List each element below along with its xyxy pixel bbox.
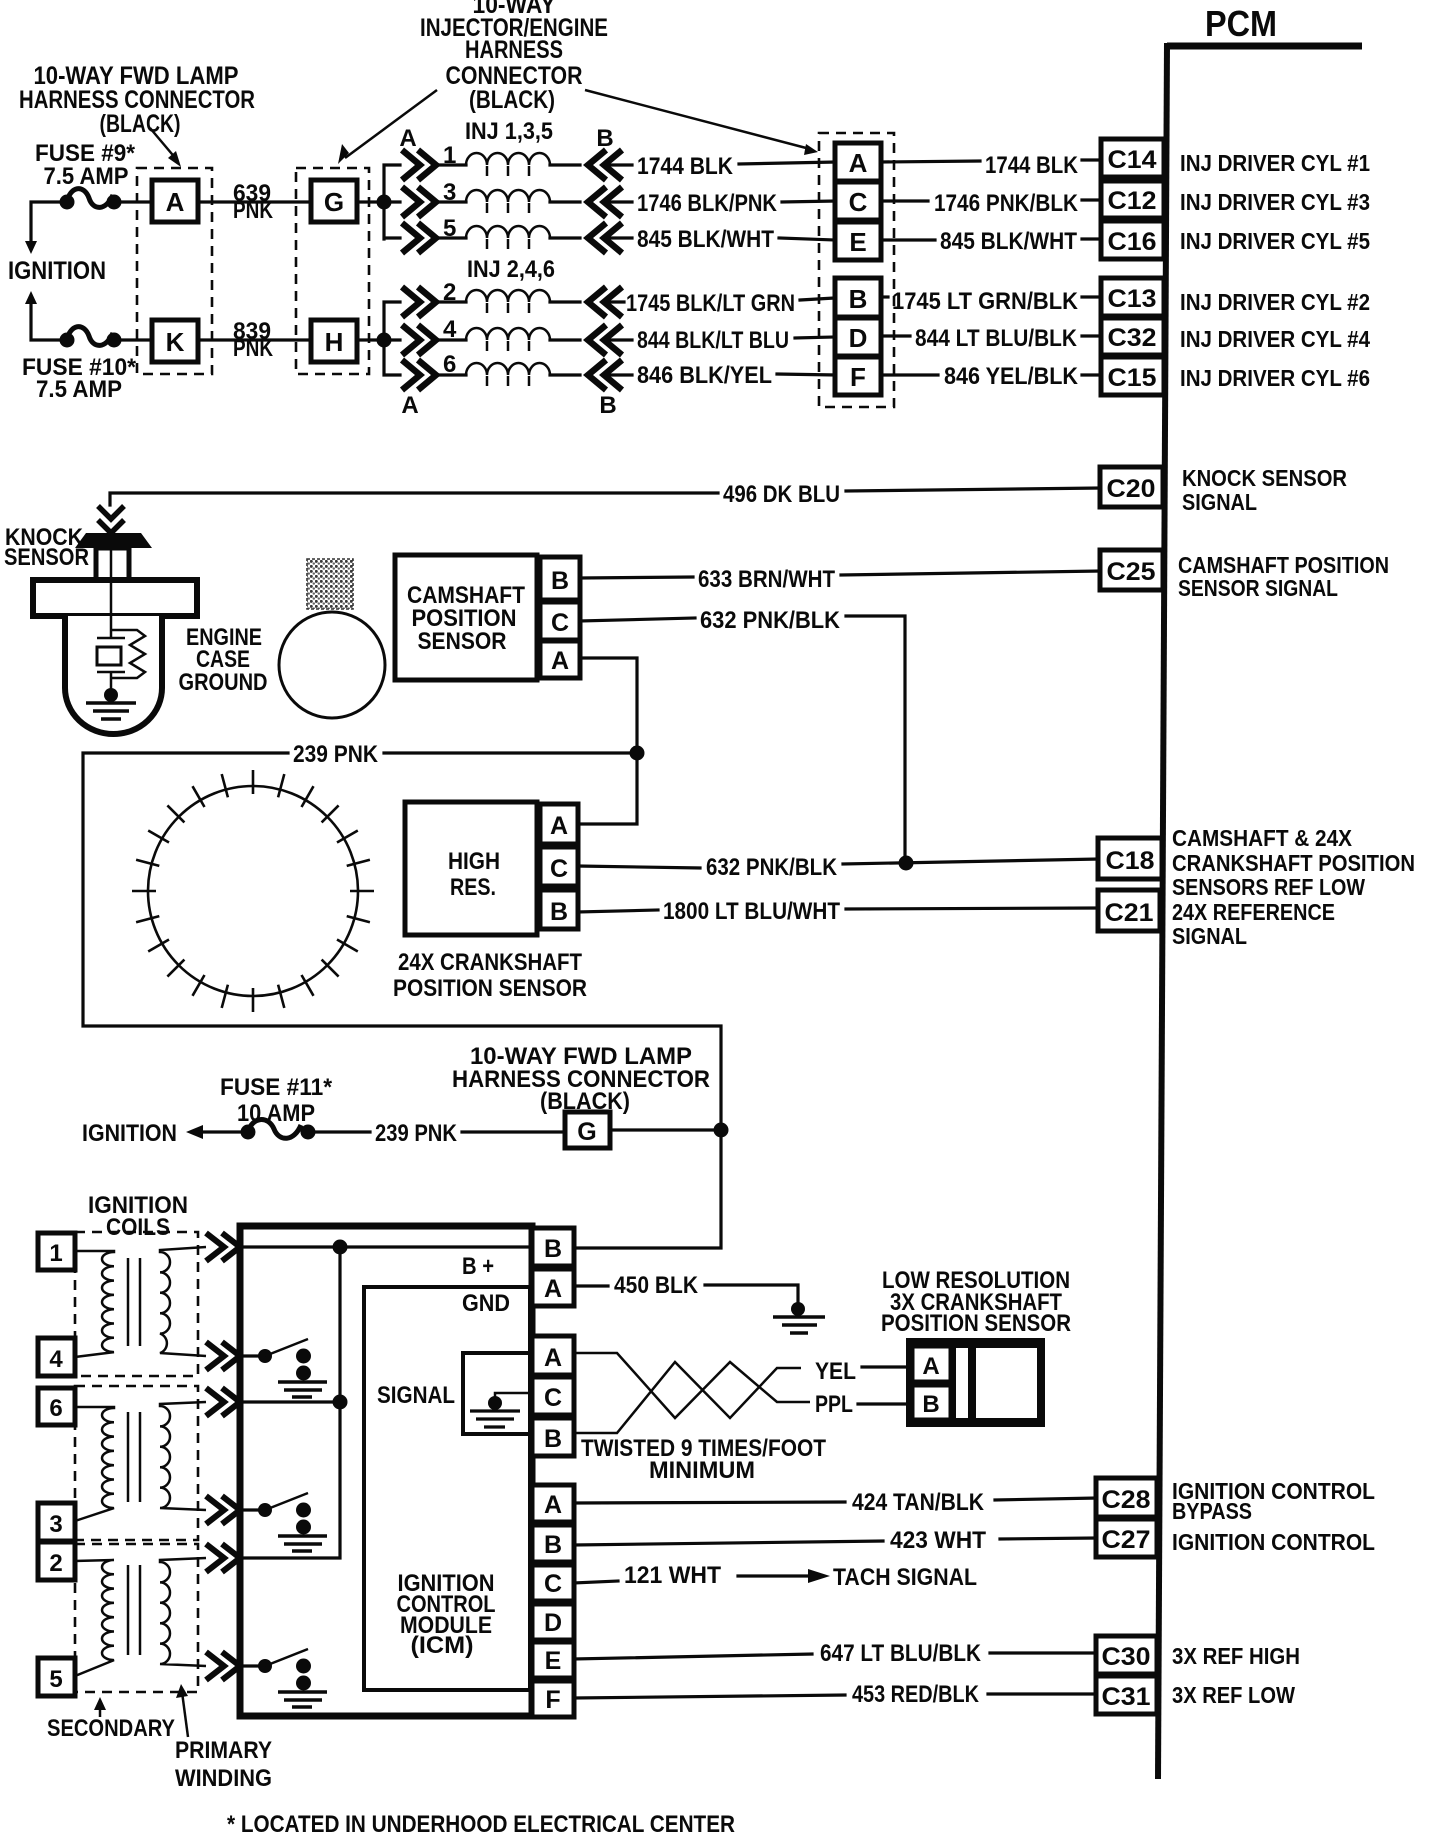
- 24X crankshaft position sensor (HIGH RES) box: [405, 802, 537, 935]
- leader arrow to injector-side connector: [585, 90, 818, 155]
- internal rail connecting coil primaries: [240, 1247, 340, 1558]
- svg-text:SENSOR: SENSOR: [418, 628, 507, 655]
- terminal C12: [1101, 181, 1164, 218]
- pin D (inj harness): [835, 318, 881, 356]
- wire 423 into C27: [1000, 1538, 1096, 1539]
- switch coil2: [240, 1493, 327, 1551]
- connector chevrons pin 6: [402, 351, 456, 390]
- wire pin B to 633 BRN/WHT: [580, 577, 693, 578]
- wire/arrow to ignition: [186, 1125, 242, 1139]
- dashed connector box G/H: [296, 168, 369, 374]
- ICM pin A (ign control group): [532, 1485, 574, 1522]
- dashed box coil 2-5: [75, 1544, 198, 1692]
- high res pin C: [540, 847, 578, 886]
- svg-text:CRANKSHAFT POSITION: CRANKSHAFT POSITION: [1172, 850, 1415, 876]
- svg-text:INJ DRIVER CYL #3: INJ DRIVER CYL #3: [1180, 189, 1370, 215]
- fuse F10: [60, 327, 122, 348]
- ground symbol 450 BLK: [773, 1317, 825, 1333]
- label CAMSHAFT & 24X CRANKSHAFT POSITION SENSORS REF LOW: [1172, 825, 1415, 900]
- node at H output: [377, 333, 392, 348]
- svg-text:2: 2: [49, 1550, 62, 1577]
- svg-text:B: B: [550, 898, 568, 926]
- wire ignition to fuse10: [25, 291, 60, 340]
- svg-text:C31: C31: [1102, 1683, 1151, 1711]
- svg-text:3X REF HIGH: 3X REF HIGH: [1172, 1643, 1300, 1669]
- knock sensor body: [65, 616, 162, 734]
- svg-text:HIGH: HIGH: [448, 848, 500, 875]
- coil 1-4 core: [128, 1258, 140, 1346]
- label: FUSE #9* 7.5 AMP: [35, 140, 136, 190]
- svg-text:(BLACK): (BLACK): [469, 86, 555, 114]
- svg-text:RES.: RES.: [450, 874, 496, 901]
- pin H (injector harness): [311, 320, 357, 362]
- svg-text:GND: GND: [462, 1290, 510, 1317]
- ICM pin A (signal group): [532, 1336, 574, 1375]
- svg-text:A: A: [399, 125, 416, 152]
- switch coil3: [240, 1649, 327, 1707]
- wire pin A to 639 PNK: [198, 200, 311, 203]
- injector coil INJ5: [438, 226, 580, 249]
- ICM inner module box: [364, 1287, 530, 1690]
- low resolution 3X crankshaft position sensor box: [909, 1341, 1042, 1424]
- wire bus from node G to injectors 1,3,5: [384, 165, 400, 239]
- ICM pin E (3x ref high): [532, 1642, 574, 1678]
- svg-text:7.5 AMP: 7.5 AMP: [36, 376, 122, 403]
- terminal C15: [1101, 357, 1164, 395]
- connector chevrons pin 4 right: [588, 325, 622, 355]
- svg-text:(ICM): (ICM): [411, 1632, 474, 1659]
- svg-text:HARNESS: HARNESS: [465, 36, 563, 64]
- wire 496 DK BLU (knock sensor to C20): [110, 493, 718, 505]
- knock sensor connector chevrons (down): [98, 506, 124, 533]
- svg-text:TACH SIGNAL: TACH SIGNAL: [833, 1564, 977, 1591]
- svg-text:F: F: [850, 362, 866, 392]
- svg-text:3: 3: [49, 1511, 62, 1538]
- svg-text:POSITION SENSOR: POSITION SENSOR: [393, 975, 587, 1002]
- PCM left edge (vertical): [1158, 43, 1167, 1779]
- wire pin A to C14: [881, 161, 980, 162]
- injector coil INJ4: [438, 328, 580, 351]
- connector chevrons pin 6 right: [588, 360, 622, 390]
- svg-text:1: 1: [49, 1240, 62, 1267]
- svg-text:6: 6: [49, 1395, 62, 1422]
- 24X reluctor wheel: [132, 770, 374, 1012]
- svg-text:C: C: [544, 1384, 562, 1412]
- injector coil INJ3: [438, 190, 580, 213]
- wire 1800 into C21: [846, 908, 1098, 909]
- pin G (fwd lamp lower): [565, 1112, 610, 1148]
- wire pin G to node: [357, 200, 384, 203]
- svg-text:BYPASS: BYPASS: [1172, 1498, 1252, 1524]
- ICM pin D: [532, 1604, 574, 1640]
- connector chevrons pin 2: [402, 279, 456, 317]
- wire label 839 PNK: [233, 318, 274, 362]
- ICM pin C (tach): [532, 1565, 574, 1601]
- pin A (fwd lamp connector): [152, 180, 198, 222]
- node B+ branch: [714, 1123, 729, 1138]
- svg-text:C18: C18: [1106, 847, 1155, 875]
- terminal C31: [1096, 1676, 1157, 1714]
- svg-text:C28: C28: [1102, 1486, 1151, 1514]
- terminal C30: [1096, 1636, 1157, 1674]
- coil 2-5 primary winding: [160, 1558, 206, 1666]
- svg-text:C32: C32: [1108, 324, 1157, 352]
- terminal C21: [1098, 890, 1160, 931]
- coil 6-3 secondary winding: [75, 1407, 114, 1521]
- injector coil INJ6: [438, 363, 580, 386]
- terminal 5: [38, 1658, 75, 1696]
- wire 1744 BLK to pin A: [739, 162, 835, 164]
- wire 632 down to junction: [846, 616, 905, 863]
- wire 453 into C31: [988, 1692, 1096, 1695]
- wire 1745 to pin B: [800, 298, 835, 300]
- node 239 PNK / cam A: [630, 746, 645, 761]
- signal ground symbol: [470, 1411, 520, 1427]
- svg-text:A: A: [550, 812, 568, 840]
- wire 647 into C30: [990, 1651, 1096, 1654]
- svg-text:K: K: [166, 327, 185, 357]
- svg-text:C30: C30: [1102, 1643, 1151, 1671]
- cam sensor pin B: [540, 557, 580, 600]
- label 10-WAY FWD LAMP HARNESS CONNECTOR (BLACK) (lower): [452, 1043, 710, 1115]
- cam sensor pin C: [540, 602, 580, 640]
- knock sensor flange: [33, 580, 197, 616]
- svg-text:1745 LT GRN/BLK: 1745 LT GRN/BLK: [892, 288, 1079, 315]
- svg-text:PNK: PNK: [233, 335, 274, 362]
- svg-text:844 LT BLU/BLK: 844 LT BLU/BLK: [915, 325, 1078, 352]
- svg-text:SENSOR SIGNAL: SENSOR SIGNAL: [1178, 575, 1338, 601]
- svg-text:845 BLK/WHT: 845 BLK/WHT: [637, 226, 774, 253]
- svg-text:MINIMUM: MINIMUM: [649, 1457, 755, 1484]
- svg-text:SENSOR: SENSOR: [4, 544, 89, 571]
- knock sensor cap: [75, 533, 152, 548]
- svg-text:B: B: [544, 1235, 562, 1263]
- svg-text:632 PNK/BLK: 632 PNK/BLK: [706, 854, 838, 881]
- svg-text:C: C: [550, 855, 568, 883]
- svg-text:C16: C16: [1108, 228, 1157, 256]
- switch coil1 (ICM output transistor): [240, 1339, 327, 1397]
- arrow to TACH SIGNAL: [738, 1569, 830, 1583]
- knock sensor neck: [96, 548, 129, 580]
- svg-text:B: B: [849, 284, 868, 314]
- svg-text:PPL: PPL: [815, 1391, 853, 1418]
- svg-text:B: B: [544, 1425, 562, 1453]
- coil 6-3 primary winding: [160, 1402, 206, 1510]
- coil 1-4 secondary winding: [75, 1251, 114, 1357]
- wire pin A of cam sensor to 239 PNK node and HIGH RES pin A: [578, 658, 637, 824]
- svg-text:633 BRN/WHT: 633 BRN/WHT: [698, 566, 835, 593]
- label FUSE #11* 10 AMP: [220, 1074, 333, 1127]
- wire to label 1745 BLK/LT GRN: [606, 300, 624, 303]
- wire pin C to 632 PNK/BLK: [580, 618, 695, 621]
- svg-text:C25: C25: [1107, 558, 1156, 586]
- node rail/B+: [333, 1240, 348, 1255]
- ICM pin C (signal group): [532, 1377, 574, 1415]
- coil 6-3 core: [128, 1412, 140, 1502]
- svg-text:10 AMP: 10 AMP: [237, 1100, 315, 1127]
- svg-text:WINDING: WINDING: [175, 1765, 272, 1792]
- wire 844 to pin D: [795, 337, 835, 338]
- svg-text:A: A: [544, 1275, 562, 1303]
- cam sensor pin A: [540, 641, 580, 678]
- svg-text:SENSORS REF LOW: SENSORS REF LOW: [1172, 874, 1365, 900]
- ICM pin B (B+): [532, 1228, 574, 1266]
- svg-text:POSITION SENSOR: POSITION SENSOR: [881, 1310, 1071, 1337]
- wire high res pin B to C21: [578, 910, 658, 912]
- svg-text:INJ DRIVER CYL #6: INJ DRIVER CYL #6: [1180, 365, 1370, 391]
- svg-text:B +: B +: [462, 1253, 494, 1280]
- wire 845 to pin E: [779, 238, 835, 240]
- twisted pair wire A: [574, 1353, 810, 1418]
- connector chevrons pin 3: [402, 179, 456, 217]
- terminal C28: [1096, 1478, 1157, 1517]
- svg-text:GROUND: GROUND: [179, 669, 268, 696]
- svg-text:632 PNK/BLK: 632 PNK/BLK: [700, 607, 841, 634]
- svg-text:SIGNAL: SIGNAL: [1182, 489, 1257, 515]
- ICM outer box: [240, 1226, 532, 1716]
- node rail/coil2: [333, 1395, 348, 1410]
- svg-text:COILS: COILS: [106, 1214, 170, 1241]
- svg-text:A: A: [401, 392, 418, 419]
- connector chevrons pin 1: [402, 142, 456, 180]
- svg-text:4: 4: [49, 1346, 63, 1373]
- dashed box coil 1-4: [75, 1232, 198, 1376]
- wire YEL to sensor pin A: [862, 1365, 909, 1368]
- svg-text:A: A: [551, 647, 569, 675]
- wire into C16: [1082, 237, 1102, 240]
- dashed connector box A/K: [137, 168, 212, 374]
- svg-text:121 WHT: 121 WHT: [624, 1562, 721, 1589]
- svg-text:1744 BLK: 1744 BLK: [637, 153, 734, 180]
- svg-text:D: D: [849, 323, 868, 353]
- wire 632 lower into C18: [843, 859, 1098, 864]
- wire to label 846 BLK/YEL: [606, 373, 632, 376]
- wire 633 into C25: [841, 571, 1100, 575]
- svg-text:F: F: [545, 1686, 560, 1714]
- high res pin B: [540, 890, 578, 929]
- label TWISTED 9 TIMES/FOOT MINIMUM: [581, 1435, 826, 1484]
- svg-text:* LOCATED IN UNDERHOOD ELECTRI: * LOCATED IN UNDERHOOD ELECTRICAL CENTER: [227, 1811, 735, 1838]
- svg-text:496 DK BLU: 496 DK BLU: [723, 481, 840, 508]
- wire to label 845 BLK/WHT: [606, 236, 632, 239]
- wire pin D to C32: [881, 334, 910, 337]
- svg-text:KNOCK SENSOR: KNOCK SENSOR: [1182, 465, 1347, 491]
- svg-text:E: E: [849, 227, 866, 257]
- svg-text:A: A: [849, 148, 868, 178]
- svg-text:647 LT BLU/BLK: 647 LT BLU/BLK: [820, 1640, 982, 1667]
- svg-text:IGNITION CONTROL: IGNITION CONTROL: [1172, 1529, 1375, 1555]
- chevron into ICM coil2 top: [206, 1388, 240, 1416]
- label: 10-WAY FWD LAMP HARNESS CONNECTOR (BLACK): [19, 62, 255, 138]
- svg-text:C27: C27: [1102, 1526, 1151, 1554]
- connector chevrons pin 3 right: [588, 187, 622, 217]
- 3X sensor pin A: [912, 1346, 951, 1382]
- svg-text:SIGNAL: SIGNAL: [1172, 923, 1247, 949]
- SIGNAL ground box: [463, 1353, 530, 1434]
- svg-text:FUSE #11*: FUSE #11*: [220, 1074, 333, 1101]
- pin E (inj harness): [835, 222, 881, 260]
- wire ICM pin E to C30: [574, 1654, 812, 1659]
- ICM pin A (GND): [532, 1269, 574, 1306]
- wire into C12: [1082, 198, 1102, 201]
- wire to label 844 BLK/LT BLU: [606, 338, 632, 341]
- leader arrow to G/H connector: [338, 90, 437, 164]
- wire to label 1744 BLK: [606, 163, 632, 166]
- svg-text:IGNITION: IGNITION: [8, 257, 106, 285]
- wire 1746 to pin C: [782, 201, 835, 202]
- label KNOCK SENSOR SIGNAL: [1182, 465, 1347, 515]
- svg-text:424 TAN/BLK: 424 TAN/BLK: [852, 1489, 985, 1516]
- svg-text:YEL: YEL: [815, 1358, 856, 1385]
- terminal C25: [1100, 550, 1163, 590]
- connector chevrons pin 2 right: [588, 287, 622, 317]
- pin G (injector harness): [311, 180, 357, 222]
- leader arrow to fwd-lamp connector: [150, 128, 181, 167]
- injector coil INJ1: [438, 153, 580, 176]
- svg-text:INJ DRIVER CYL #1: INJ DRIVER CYL #1: [1180, 150, 1370, 176]
- wire pin F to C15: [881, 373, 938, 376]
- dashed box coil 6-3: [75, 1386, 198, 1540]
- wire to label 1746 BLK/PNK: [606, 200, 632, 203]
- svg-text:B: B: [544, 1531, 562, 1559]
- svg-text:INJ DRIVER CYL #4: INJ DRIVER CYL #4: [1180, 326, 1370, 352]
- svg-text:5: 5: [49, 1666, 62, 1693]
- terminal C16: [1101, 221, 1164, 259]
- svg-text:G: G: [577, 1118, 596, 1146]
- wire B+ rail (chevron to pin B): [240, 1245, 532, 1248]
- label: 10-WAY INJECTOR/ENGINE HARNESS CONNECTOR (BLACK): [420, 0, 608, 114]
- svg-text:C: C: [849, 187, 868, 217]
- chevron into ICM coil1 B+: [206, 1233, 240, 1261]
- svg-text:(BLACK): (BLACK): [100, 110, 181, 138]
- terminal C18: [1098, 838, 1162, 879]
- fuse F11: [241, 1120, 316, 1140]
- svg-text:24X REFERENCE: 24X REFERENCE: [1172, 899, 1335, 925]
- wire into C13: [1082, 295, 1102, 298]
- svg-text:C12: C12: [1108, 187, 1157, 215]
- terminal C27: [1096, 1519, 1157, 1557]
- connector chevrons pin 4: [402, 316, 457, 355]
- wire PPL to sensor pin B: [858, 1402, 909, 1405]
- wire pin B to C13: [881, 295, 888, 298]
- label ENGINE CASE GROUND: [179, 624, 268, 696]
- svg-text:INJ DRIVER CYL #2: INJ DRIVER CYL #2: [1180, 289, 1370, 315]
- svg-text:C13: C13: [1108, 285, 1157, 313]
- wire into C32: [1082, 334, 1102, 337]
- chevron into ICM coil3 switch: [206, 1652, 240, 1680]
- node at G output: [377, 195, 392, 210]
- terminal 6: [38, 1388, 75, 1425]
- svg-text:INJ 1,3,5: INJ 1,3,5: [465, 118, 553, 145]
- wire fuse9 to ignition: [25, 202, 60, 254]
- chevron into ICM coil2 switch: [206, 1496, 240, 1524]
- high res pin A: [540, 804, 578, 844]
- wire fuse10 to pin K: [121, 338, 152, 341]
- svg-text:B: B: [599, 392, 616, 419]
- svg-text:24X CRANKSHAFT: 24X CRANKSHAFT: [398, 949, 582, 976]
- svg-text:E: E: [545, 1647, 562, 1675]
- knock sensor internal element: [97, 548, 145, 695]
- svg-text:C14: C14: [1108, 146, 1157, 174]
- terminal 2: [38, 1542, 75, 1580]
- svg-text:845 BLK/WHT: 845 BLK/WHT: [940, 228, 1077, 255]
- svg-text:7.5 AMP: 7.5 AMP: [44, 163, 129, 190]
- terminal C20: [1100, 467, 1163, 507]
- svg-text:A: A: [166, 187, 185, 217]
- wire ICM pin B to C27: [574, 1541, 883, 1545]
- connector chevrons pin 1 right: [588, 150, 622, 180]
- label IGNITION CONTROL MODULE (ICM): [397, 1570, 496, 1659]
- 3X sensor divider: [954, 1346, 970, 1420]
- wire 846 to pin F: [777, 374, 835, 375]
- chevron into ICM coil1 switch: [206, 1342, 240, 1370]
- connector chevrons pin 5: [402, 215, 456, 253]
- svg-text:C21: C21: [1105, 899, 1154, 927]
- dashed injector/engine harness connector box: [819, 133, 894, 407]
- engine case ground boss (circle): [279, 612, 385, 718]
- wire fuse to 239 PNK label: [315, 1130, 370, 1133]
- label SECONDARY with arrow: [47, 1697, 175, 1742]
- wire high res pin C to C18: [578, 866, 700, 868]
- svg-text:C: C: [544, 1570, 562, 1598]
- svg-text:B: B: [596, 125, 613, 152]
- svg-text:IGNITION: IGNITION: [82, 1120, 177, 1147]
- terminal 1: [38, 1233, 75, 1270]
- wire 450 BLK to ground: [705, 1285, 798, 1302]
- svg-text:G: G: [324, 187, 344, 217]
- label IGNITION CONTROL BYPASS: [1172, 1478, 1375, 1524]
- wire 239 PNK to pin G: [462, 1130, 565, 1133]
- label KNOCK SENSOR: [4, 524, 89, 571]
- wire 239 PNK loop (left rectangle): [83, 753, 721, 1248]
- pin K (fwd lamp connector): [152, 320, 198, 362]
- svg-text:846 BLK/YEL: 846 BLK/YEL: [637, 362, 772, 389]
- label 24X CRANKSHAFT POSITION SENSOR: [393, 949, 587, 1002]
- engine case ground stud (stippled block): [307, 559, 353, 609]
- wire pin G to B+ node: [610, 1128, 721, 1131]
- svg-text:423 WHT: 423 WHT: [890, 1527, 986, 1554]
- svg-text:SECONDARY: SECONDARY: [47, 1715, 175, 1742]
- svg-text:1745 BLK/LT GRN: 1745 BLK/LT GRN: [626, 290, 795, 317]
- ICM pin B (signal group): [532, 1418, 574, 1456]
- wire ICM pin A to 450 BLK ground: [574, 1284, 608, 1287]
- svg-text:3X REF LOW: 3X REF LOW: [1172, 1682, 1295, 1708]
- wire 424 into C28: [995, 1498, 1096, 1500]
- svg-text:PRIMARY: PRIMARY: [175, 1737, 272, 1764]
- svg-text:B: B: [922, 1391, 939, 1418]
- svg-text:A: A: [544, 1344, 562, 1372]
- wire label 639 PNK: [233, 180, 274, 224]
- injector coil INJ2: [438, 290, 580, 313]
- terminal C14: [1101, 139, 1164, 177]
- svg-text:C15: C15: [1108, 364, 1157, 392]
- pin A (inj harness): [835, 143, 881, 181]
- label: FUSE #10* 7.5 AMP: [22, 354, 137, 403]
- camshaft position sensor box: [395, 555, 537, 680]
- svg-text:PCM: PCM: [1205, 3, 1277, 44]
- terminal 3: [38, 1503, 75, 1541]
- svg-text:H: H: [325, 327, 344, 357]
- node 632 junction: [899, 856, 914, 871]
- terminal 4: [38, 1338, 75, 1376]
- svg-text:450 BLK: 450 BLK: [614, 1272, 699, 1299]
- wire ICM pin C to 121 WHT: [574, 1581, 618, 1583]
- svg-text:PNK: PNK: [233, 197, 274, 224]
- connector chevrons pin 5 right: [588, 223, 622, 253]
- knock sensor internal ground: [86, 703, 136, 719]
- ICM pin B (ign control group): [532, 1525, 574, 1562]
- PCM top edge: [1167, 43, 1362, 50]
